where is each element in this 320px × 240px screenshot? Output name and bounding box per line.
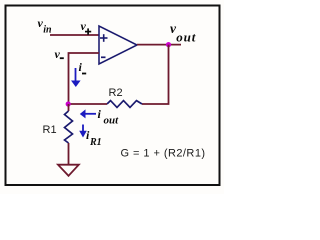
svg-text:i: i bbox=[98, 107, 102, 121]
svg-text:in: in bbox=[43, 25, 52, 36]
wire node A to R1 bbox=[68, 104, 70, 111]
wire op-amp output bbox=[137, 44, 181, 46]
svg-text:v: v bbox=[55, 47, 61, 61]
label i_R1 bbox=[86, 128, 102, 148]
wire feedback right vertical bbox=[142, 45, 169, 104]
svg-text:out: out bbox=[104, 115, 120, 127]
label i_out bbox=[98, 107, 120, 127]
svg-text:G = 1 + (R2/R1): G = 1 + (R2/R1) bbox=[121, 148, 206, 160]
node A junction bbox=[66, 101, 71, 106]
svg-text:i: i bbox=[79, 60, 83, 74]
node v_out junction bbox=[166, 42, 171, 47]
wire inverting input / feedback bbox=[69, 53, 100, 104]
current arrow i_out bbox=[80, 109, 96, 118]
gain formula text bbox=[121, 148, 206, 160]
wire R1 to ground bbox=[68, 143, 70, 164]
ground bbox=[58, 165, 79, 176]
svg-text:out: out bbox=[176, 30, 196, 45]
svg-text:R2: R2 bbox=[109, 87, 123, 99]
current arrow i_R1 bbox=[79, 125, 87, 138]
label R1 bbox=[43, 124, 57, 136]
current arrow i- bbox=[71, 68, 81, 87]
resistor R2 bbox=[107, 101, 142, 108]
svg-text:R1: R1 bbox=[43, 124, 57, 136]
node v_out label bbox=[170, 21, 196, 45]
op-amp U1 bbox=[99, 26, 137, 64]
node v- label bbox=[55, 47, 64, 61]
wire v_in input bbox=[50, 34, 99, 36]
resistor R1 bbox=[65, 111, 73, 143]
node v_in label bbox=[38, 16, 52, 36]
label i- bbox=[79, 60, 87, 74]
svg-text:R1: R1 bbox=[89, 137, 102, 148]
label R2 bbox=[109, 87, 123, 99]
wire R2 to node A bbox=[69, 103, 108, 105]
node v+ label bbox=[81, 19, 92, 35]
